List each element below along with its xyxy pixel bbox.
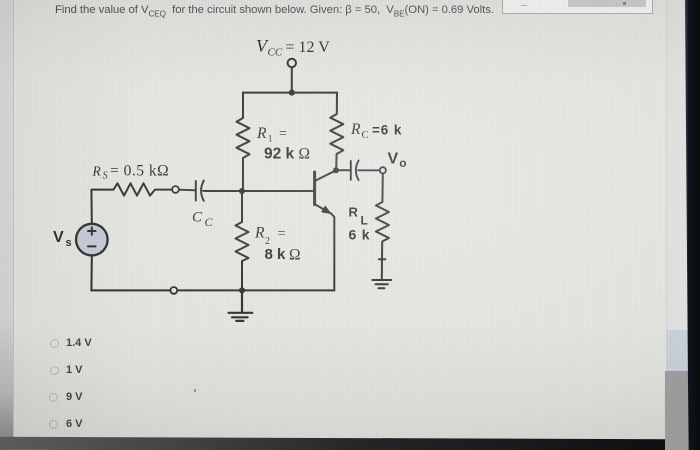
node top junction <box>289 90 295 96</box>
svg-text:R: R <box>349 205 359 220</box>
resistor RS <box>114 183 173 195</box>
dust speck <box>194 389 196 392</box>
left edge strip <box>0 0 14 450</box>
svg-text:o: o <box>399 156 406 170</box>
svg-text:s: s <box>66 237 72 249</box>
svg-text:6 k: 6 k <box>349 227 371 243</box>
svg-text:Ω: Ω <box>289 246 301 263</box>
svg-text:R: R <box>256 125 267 142</box>
answer option radio 6V <box>49 420 58 429</box>
bottom bezel bar <box>0 437 670 450</box>
svg-text:V: V <box>388 151 399 168</box>
svg-text:92 k: 92 k <box>264 145 295 162</box>
transistor Q1 base bar <box>313 172 316 205</box>
node base junction <box>239 188 245 194</box>
gray button in UI box <box>568 0 646 7</box>
svg-text:C: C <box>362 130 369 141</box>
transistor Q1 emitter lead <box>316 205 335 291</box>
source VS <box>76 224 108 256</box>
terminal circle after RS <box>172 186 179 193</box>
question title <box>55 4 494 16</box>
scrollbar thumb <box>665 371 688 450</box>
svg-text:=: = <box>279 127 287 142</box>
bottom rail wire <box>91 289 334 291</box>
resistor R1 <box>237 93 250 191</box>
wire VS bottom to rail <box>90 255 92 290</box>
scrollbar track <box>666 0 689 450</box>
answer option radio 1V <box>50 366 59 375</box>
answer option radio 9V <box>49 393 58 402</box>
VCC terminal <box>288 59 296 67</box>
terminal circle bottom rail <box>170 287 177 294</box>
node collector junction <box>333 167 339 173</box>
answer option radio 1.4V <box>50 339 59 348</box>
svg-text:Ω: Ω <box>299 146 311 163</box>
capacitor C2 output <box>351 161 380 181</box>
top-right UI box <box>502 0 653 14</box>
terminal Vo <box>380 167 386 173</box>
svg-text:1: 1 <box>268 135 273 145</box>
wire base line <box>205 190 315 192</box>
svg-text:C: C <box>192 210 203 226</box>
svg-text:C: C <box>205 215 214 229</box>
svg-text:V: V <box>53 229 64 246</box>
resistor RL <box>376 202 389 280</box>
transistor Q1 emitter arrow <box>322 206 331 213</box>
resistor RC <box>330 93 343 171</box>
wire collector to output cap <box>336 169 351 171</box>
ground below RL <box>372 280 391 288</box>
wire VCC to top rail <box>291 67 293 92</box>
svg-text:= 0.5 kΩ: = 0.5 kΩ <box>110 162 169 179</box>
svg-text:R: R <box>350 121 361 138</box>
svg-text:8 k: 8 k <box>265 246 287 263</box>
wire Vo down to RL <box>381 174 383 203</box>
svg-text:=6 k: =6 k <box>372 123 402 138</box>
svg-text:S: S <box>103 171 108 182</box>
resistor R2 <box>236 191 249 290</box>
svg-text:L: L <box>361 214 368 228</box>
node bottom junction <box>239 287 245 293</box>
ground below R2 <box>229 290 253 321</box>
scrollbar glare <box>666 330 688 375</box>
wire VS top to RS <box>91 190 113 224</box>
svg-text:R: R <box>254 225 265 242</box>
capacitor CC input <box>179 181 205 201</box>
svg-text:= 12 V: = 12 V <box>286 39 331 56</box>
right bezel <box>684 0 700 450</box>
top rail wire <box>243 92 337 94</box>
svg-text:R: R <box>92 163 102 178</box>
svg-text:CC: CC <box>268 47 283 59</box>
svg-text:=: = <box>278 227 286 242</box>
transistor Q1 collector lead <box>316 170 337 180</box>
tiny cursor mark in UI box <box>521 1 531 6</box>
